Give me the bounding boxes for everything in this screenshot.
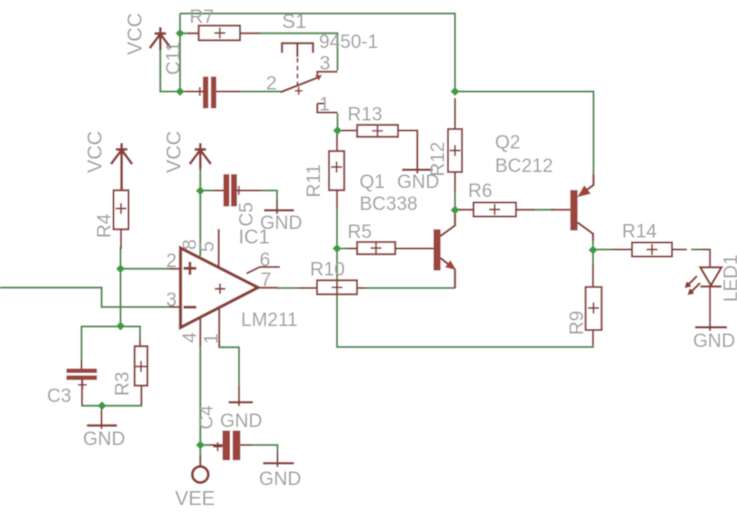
- svg-text:GND: GND: [220, 411, 262, 432]
- svg-text:Q2: Q2: [495, 133, 520, 154]
- svg-text:2: 2: [166, 250, 177, 272]
- svg-text:GND: GND: [259, 469, 301, 490]
- svg-text:GND: GND: [397, 172, 439, 193]
- svg-text:C5: C5: [237, 202, 258, 226]
- svg-text:BC338: BC338: [360, 194, 418, 215]
- svg-text:LED1: LED1: [721, 254, 737, 302]
- svg-text:R3: R3: [113, 372, 134, 396]
- svg-text:IC1: IC1: [239, 227, 270, 249]
- svg-text:5: 5: [197, 241, 219, 252]
- svg-text:VEE: VEE: [175, 488, 215, 510]
- svg-text:C11: C11: [164, 42, 185, 75]
- svg-text:Q1: Q1: [360, 172, 385, 193]
- svg-text:R4: R4: [95, 213, 116, 238]
- svg-text:GND: GND: [693, 331, 735, 352]
- svg-text:4: 4: [179, 332, 201, 343]
- svg-text:1: 1: [319, 94, 330, 116]
- svg-text:R5: R5: [348, 222, 372, 243]
- svg-text:2: 2: [266, 73, 277, 95]
- svg-text:C3: C3: [47, 386, 71, 407]
- svg-text:C4: C4: [197, 405, 218, 430]
- svg-text:R9: R9: [567, 311, 588, 335]
- svg-text:BC212: BC212: [495, 156, 553, 177]
- svg-text:9450-1: 9450-1: [319, 32, 378, 53]
- svg-text:6: 6: [260, 249, 271, 271]
- svg-text:S1: S1: [282, 11, 306, 33]
- svg-text:1: 1: [201, 333, 223, 344]
- svg-text:VCC: VCC: [85, 131, 107, 173]
- svg-text:LM211: LM211: [241, 310, 298, 331]
- svg-text:R13: R13: [348, 105, 383, 126]
- svg-text:3: 3: [320, 53, 331, 75]
- svg-text:3: 3: [166, 289, 177, 311]
- svg-text:R14: R14: [622, 222, 657, 243]
- svg-text:7: 7: [261, 269, 272, 291]
- svg-text:R10: R10: [310, 260, 345, 281]
- svg-text:GND: GND: [83, 429, 125, 450]
- svg-text:R7: R7: [190, 7, 214, 28]
- svg-text:VCC: VCC: [125, 13, 147, 55]
- svg-text:R11: R11: [304, 164, 325, 197]
- svg-text:VCC: VCC: [164, 131, 186, 173]
- svg-text:R6: R6: [468, 181, 492, 202]
